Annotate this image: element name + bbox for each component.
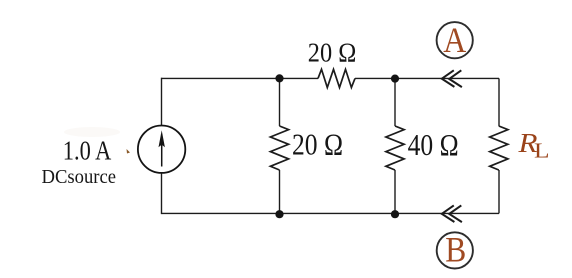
wire left branch lower [161, 174, 163, 215]
svg-text:1.0 A: 1.0 A [63, 136, 112, 166]
node junction dot top-left [275, 74, 283, 82]
node junction dot bottom-left [275, 210, 283, 218]
wire bottom rail [162, 212, 500, 214]
wire branch2 lower lead [394, 170, 396, 213]
terminal B circle [437, 232, 473, 268]
resistor 40ohm shunt (vertical zigzag) [386, 126, 404, 170]
svg-text:B: B [445, 229, 466, 269]
resistor RL load (vertical zigzag) [490, 126, 508, 170]
stray cursor mark [127, 149, 131, 154]
svg-text:20 Ω: 20 Ω [292, 128, 343, 162]
svg-text:L: L [534, 138, 550, 162]
terminal A circle [437, 22, 473, 58]
wire top rail left segment [162, 77, 319, 79]
wire top rail right segment [355, 77, 499, 79]
current source I1 arrow [159, 130, 165, 166]
faint ghost smudge [64, 127, 120, 137]
wire branch1 upper lead [279, 78, 281, 126]
current direction chevrons at A [442, 70, 462, 87]
svg-text:A: A [443, 20, 466, 60]
wire right branch lower lead [498, 170, 500, 213]
wire right branch upper lead [498, 78, 500, 126]
current source I1 circle [138, 126, 185, 173]
svg-text:40 Ω: 40 Ω [408, 128, 459, 162]
svg-text:20 Ω: 20 Ω [308, 37, 357, 68]
wire branch2 upper lead [394, 78, 396, 126]
node junction dot bottom-right [391, 210, 399, 218]
wire left branch upper [161, 78, 163, 125]
svg-text:DCsource: DCsource [42, 166, 117, 188]
resistor R_series 20ohm (horizontal zigzag) [318, 69, 355, 87]
current direction chevrons at B [442, 205, 462, 222]
resistor 20ohm shunt (vertical zigzag) [270, 126, 288, 170]
wire branch1 lower lead [279, 170, 281, 213]
label RL [517, 128, 549, 162]
node junction dot top-right [391, 75, 399, 83]
